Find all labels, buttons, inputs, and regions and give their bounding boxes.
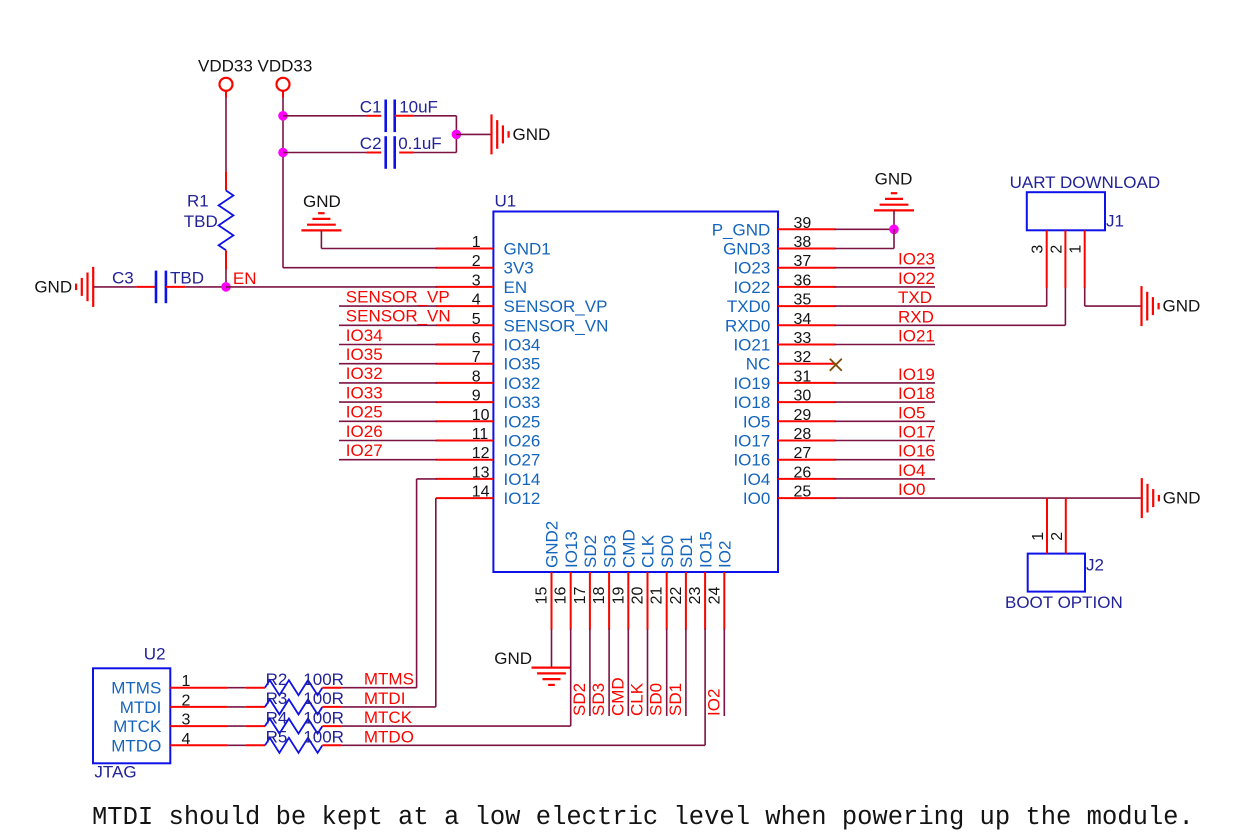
svg-text:100R: 100R [303, 728, 344, 747]
net label SD1 [666, 683, 685, 716]
U1 pin 2 3V3 [436, 253, 534, 278]
svg-text:R2: R2 [266, 670, 288, 689]
svg-text:28: 28 [794, 426, 812, 443]
svg-text:3: 3 [182, 712, 191, 729]
wire net MTMS (R2 to U1 pin 13) [342, 479, 437, 688]
net label IO4 [898, 461, 925, 480]
svg-text:IO12: IO12 [504, 489, 541, 508]
wire EN to U1 pin 3 [226, 286, 437, 288]
svg-text:GND2: GND2 [543, 521, 562, 568]
U1 pin 12 IO27 [436, 445, 541, 470]
net label SENSOR_VN [346, 307, 451, 326]
net label IO34 [346, 326, 383, 345]
svg-text:MTDO: MTDO [364, 727, 414, 746]
wire GND to U1 pin 1 [321, 230, 436, 248]
node EN junction [221, 282, 231, 292]
svg-text:MTDI: MTDI [120, 698, 162, 717]
svg-text:9: 9 [472, 388, 481, 405]
svg-text:IO19: IO19 [898, 365, 935, 384]
net label SENSOR_VP [346, 287, 450, 306]
U1 pin 15 GND2 [534, 521, 562, 630]
svg-text:1: 1 [472, 234, 481, 251]
U2 pin 2 MTDI [120, 692, 228, 717]
wire GND symbol down to junction [893, 210, 895, 229]
net label IO19 [898, 365, 935, 384]
svg-text:36: 36 [794, 272, 812, 289]
svg-text:U1: U1 [495, 192, 517, 211]
J1 pin 3 [1030, 230, 1047, 288]
svg-text:2: 2 [1048, 245, 1065, 254]
svg-text:MTDO: MTDO [111, 736, 161, 755]
svg-text:1: 1 [1068, 245, 1085, 254]
junction C1/C2 to GND [452, 130, 462, 140]
wire net IO4 to U1 pin 26 [835, 478, 935, 480]
capacitor C3 TBD [93, 268, 204, 303]
wire U2 pin 4 to R5 [228, 744, 246, 746]
svg-text:IO34: IO34 [346, 326, 383, 345]
svg-text:1: 1 [182, 673, 191, 690]
wire U2 pin 1 to R2 [228, 687, 246, 689]
svg-text:39: 39 [794, 215, 812, 232]
wire net TXD (U1 pin 35 to J1 pin 3) [835, 287, 1047, 306]
svg-text:100R: 100R [303, 689, 344, 708]
power symbol VDD33 (right) [258, 56, 313, 91]
wire net IO5 to U1 pin 29 [835, 420, 935, 422]
wire net IO35 to U1 pin 7 [339, 363, 437, 365]
net label SD2 [570, 683, 589, 716]
U1 pin 20 CLK [630, 534, 658, 629]
svg-text:IO2: IO2 [704, 689, 723, 716]
svg-text:JTAG: JTAG [94, 763, 136, 782]
net label IO16 [898, 442, 935, 461]
U1 pin 17 SD2 [572, 535, 600, 630]
svg-text:100R: 100R [303, 670, 344, 689]
wire net IO16 to U1 pin 27 [835, 459, 935, 461]
J2 pin 2 [1049, 498, 1066, 553]
net label MTMS [364, 670, 414, 689]
U1 pin 31 IO19 [733, 368, 835, 393]
svg-text:10uF: 10uF [399, 98, 438, 117]
svg-text:IO14: IO14 [504, 470, 541, 489]
svg-text:SD1: SD1 [666, 683, 685, 716]
svg-text:UART DOWNLOAD: UART DOWNLOAD [1010, 173, 1161, 192]
wire J1 pin 1 to ground [1085, 287, 1142, 306]
net label IO18 [898, 384, 935, 403]
net label EN [233, 269, 257, 288]
U1 pin 37 IO23 [733, 253, 835, 278]
svg-text:2: 2 [1049, 532, 1066, 541]
svg-text:MTDI should be kept at a low e: MTDI should be kept at a low electric le… [92, 803, 1194, 832]
U1 pin 25 IO0 [743, 484, 836, 509]
net label IO32 [346, 364, 383, 383]
svg-text:IO18: IO18 [733, 393, 770, 412]
U1 pin 21 SD0 [649, 535, 677, 630]
U1 pin 13 IO14 [436, 464, 541, 489]
wire net CMD to U1 pin 19 [627, 629, 629, 716]
svg-text:IO27: IO27 [504, 451, 541, 470]
svg-text:SD2: SD2 [581, 535, 600, 568]
resistor R5 100R [246, 728, 344, 753]
ground symbol (C3 left) [34, 267, 93, 307]
U1 pin 9 IO33 [436, 388, 541, 413]
wire net IO21 to U1 pin 33 [835, 344, 935, 346]
wire net IO34 to U1 pin 6 [339, 344, 437, 346]
wire net IO22 to U1 pin 36 [835, 286, 935, 288]
svg-text:VDD33: VDD33 [198, 56, 253, 75]
wire net CLK to U1 pin 20 [647, 629, 649, 716]
U1 pin 26 IO4 [743, 464, 836, 489]
U2 pin 3 MTCK [113, 712, 228, 737]
svg-text:IO35: IO35 [346, 345, 383, 364]
net label IO0 [898, 480, 925, 499]
svg-text:27: 27 [794, 445, 812, 462]
resistor R1 [184, 171, 234, 269]
svg-text:IO4: IO4 [898, 461, 925, 480]
svg-text:SD1: SD1 [677, 535, 696, 568]
wire U1 pin 39 to junction [835, 228, 894, 230]
ground symbol (J1) [1142, 286, 1201, 326]
svg-text:4: 4 [182, 731, 191, 748]
wire U1 pin 15 to ground [551, 629, 553, 668]
svg-text:12: 12 [472, 445, 490, 462]
U1 pin 33 IO21 [733, 330, 835, 355]
svg-text:7: 7 [472, 349, 481, 366]
ground symbol (GND2) [494, 649, 571, 685]
svg-text:IO33: IO33 [346, 383, 383, 402]
svg-text:R4: R4 [266, 708, 288, 727]
connector U2 JTAG [93, 644, 170, 781]
U1 pin 3 EN [436, 272, 527, 297]
resistor R2 100R [246, 670, 344, 695]
svg-text:32: 32 [794, 349, 812, 366]
capacitor C2 0.1uF [283, 134, 442, 169]
U1 pin 38 GND3 [723, 234, 836, 259]
svg-text:13: 13 [472, 464, 490, 481]
U1 pin 39 P_GND [712, 215, 836, 240]
wire net SD3 to U1 pin 18 [608, 629, 610, 716]
svg-text:17: 17 [572, 587, 589, 605]
svg-text:CMD: CMD [620, 529, 639, 568]
svg-text:GND: GND [494, 649, 532, 668]
svg-text:20: 20 [630, 587, 647, 605]
wire net MTDI (R3 to U1 pin 14) [342, 498, 436, 707]
U1 pin 28 IO17 [733, 426, 835, 451]
svg-text:3: 3 [472, 272, 481, 289]
wire U1 pin 38 GND3 to junction [835, 229, 894, 248]
wire net SD2 to U1 pin 17 [589, 629, 591, 716]
svg-text:3: 3 [1030, 245, 1047, 254]
svg-text:IO5: IO5 [898, 403, 925, 422]
svg-text:C1: C1 [360, 98, 382, 117]
svg-text:2: 2 [472, 253, 481, 270]
U1 pin 24 IO2 [706, 541, 734, 630]
net label MTDI [364, 689, 406, 708]
U1 pin 16 IO13 [553, 531, 581, 629]
svg-text:SD2: SD2 [570, 683, 589, 716]
resistor R3 100R [246, 689, 344, 714]
svg-text:IO22: IO22 [733, 278, 770, 297]
svg-text:C2: C2 [360, 134, 382, 153]
net label TXD [898, 288, 932, 307]
capacitor C1 10uF [283, 98, 438, 133]
net label IO35 [346, 345, 383, 364]
svg-text:CLK: CLK [628, 682, 647, 716]
wire net IO2 to U1 pin 24 [723, 629, 725, 716]
net label CLK [628, 682, 647, 716]
svg-text:IO33: IO33 [504, 393, 541, 412]
U2 pin 4 MTDO [111, 731, 228, 756]
svg-text:GND: GND [303, 192, 341, 211]
svg-text:24: 24 [706, 587, 723, 605]
svg-text:IO16: IO16 [898, 442, 935, 461]
wire net SENSOR_VN to U1 pin 5 [339, 324, 437, 326]
junction at VDD33/C1 [278, 111, 288, 121]
U1 pin 23 IO15 [687, 531, 715, 629]
wire net IO19 to U1 pin 31 [835, 382, 935, 384]
wire net SENSOR_VP to U1 pin 4 [339, 305, 437, 307]
svg-text:SD0: SD0 [658, 535, 677, 568]
svg-text:2: 2 [182, 692, 191, 709]
J1 pin 1 [1068, 230, 1085, 288]
U1 pin 34 RXD0 [725, 311, 836, 336]
net label IO17 [898, 423, 935, 442]
net label IO21 [898, 327, 935, 346]
svg-text:P_GND: P_GND [712, 220, 771, 239]
svg-text:11: 11 [472, 426, 489, 443]
svg-text:MTCK: MTCK [364, 708, 413, 727]
svg-text:IO18: IO18 [898, 384, 935, 403]
wire C1 to GND corner [414, 116, 457, 135]
svg-text:IO17: IO17 [898, 423, 935, 442]
net label IO26 [346, 422, 383, 441]
U1 pin 22 SD1 [668, 535, 696, 630]
svg-text:IO13: IO13 [562, 531, 581, 568]
svg-text:21: 21 [649, 587, 666, 605]
svg-text:R5: R5 [266, 728, 288, 747]
wire net IO18 to U1 pin 30 [835, 401, 935, 403]
svg-text:IO23: IO23 [733, 259, 770, 278]
svg-text:SENSOR_VP: SENSOR_VP [346, 287, 450, 306]
U1 pin 19 CMD [610, 529, 638, 629]
svg-text:IO16: IO16 [733, 451, 770, 470]
svg-text:IO19: IO19 [733, 374, 770, 393]
svg-text:IO32: IO32 [346, 364, 383, 383]
svg-text:MTMS: MTMS [364, 670, 414, 689]
svg-text:IO35: IO35 [504, 355, 541, 374]
svg-text:CLK: CLK [639, 534, 658, 568]
svg-text:GND: GND [34, 277, 72, 296]
wire net IO32 to U1 pin 8 [339, 382, 437, 384]
svg-text:GND1: GND1 [504, 240, 551, 259]
svg-text:22: 22 [668, 587, 685, 605]
svg-text:4: 4 [472, 292, 481, 309]
wire U2 pin 2 to R3 [228, 706, 246, 708]
svg-text:BOOT OPTION: BOOT OPTION [1005, 593, 1123, 612]
wire VDD33 down to 3V3 pin 2 [283, 91, 437, 268]
wire net SD0 to U1 pin 21 [666, 629, 668, 716]
svg-text:GND3: GND3 [723, 240, 770, 259]
U1 pin 7 IO35 [436, 349, 541, 374]
svg-text:IO15: IO15 [696, 531, 715, 568]
connector J2 BOOT OPTION [1005, 554, 1123, 612]
svg-text:30: 30 [794, 388, 812, 405]
svg-text:R1: R1 [187, 191, 209, 210]
connector J1 UART DOWNLOAD [1010, 173, 1161, 231]
svg-text:IO27: IO27 [346, 441, 383, 460]
wire net IO17 to U1 pin 28 [835, 440, 935, 442]
svg-text:IO32: IO32 [504, 374, 541, 393]
svg-text:SENSOR_VN: SENSOR_VN [346, 307, 451, 326]
svg-text:RXD0: RXD0 [725, 316, 770, 335]
svg-text:5: 5 [472, 311, 481, 328]
wire net IO25 to U1 pin 10 [339, 420, 437, 422]
wire U2 pin 3 to R4 [228, 725, 246, 727]
svg-text:6: 6 [472, 330, 481, 347]
svg-text:SD3: SD3 [589, 683, 608, 716]
wire net IO23 to U1 pin 37 [835, 267, 935, 269]
svg-text:37: 37 [794, 253, 812, 270]
svg-text:33: 33 [794, 330, 812, 347]
svg-text:GND: GND [875, 170, 913, 189]
svg-text:19: 19 [610, 587, 627, 605]
svg-text:15: 15 [534, 587, 551, 605]
wire net IO26 to U1 pin 11 [339, 440, 437, 442]
svg-text:R3: R3 [266, 689, 288, 708]
net label IO5 [898, 403, 925, 422]
resistor R4 100R [246, 708, 344, 733]
svg-text:RXD: RXD [898, 307, 934, 326]
U1 pin 11 IO26 [436, 426, 541, 451]
svg-text:3V3: 3V3 [504, 259, 534, 278]
svg-text:MTMS: MTMS [111, 679, 161, 698]
net label CMD [608, 677, 627, 716]
U1 pin 8 IO32 [436, 368, 541, 393]
svg-text:CMD: CMD [608, 677, 627, 716]
no-connect X on U1 pin 32 [830, 359, 842, 371]
U1 pin 29 IO5 [743, 407, 836, 432]
IC U1 ESP32 module body [493, 192, 778, 573]
U1 pin 18 SD3 [591, 535, 619, 630]
svg-text:IO26: IO26 [504, 432, 541, 451]
svg-text:23: 23 [687, 587, 704, 605]
U1 pin 1 GND1 [436, 234, 551, 259]
svg-text:IO25: IO25 [346, 403, 383, 422]
svg-text:IO22: IO22 [898, 269, 935, 288]
svg-text:IO4: IO4 [743, 470, 770, 489]
svg-text:TXD0: TXD0 [727, 297, 770, 316]
svg-text:MTDI: MTDI [364, 689, 406, 708]
svg-text:J1: J1 [1106, 211, 1124, 230]
U1 pin 36 IO22 [733, 272, 835, 297]
svg-text:38: 38 [794, 234, 812, 251]
net label SD3 [589, 683, 608, 716]
svg-text:26: 26 [794, 464, 812, 481]
svg-text:IO2: IO2 [716, 541, 735, 568]
wire net MTDO (R5 to U1 pin 23) [342, 629, 705, 746]
net label MTDO [364, 727, 414, 746]
svg-text:1: 1 [1030, 532, 1047, 541]
J1 pin 2 [1048, 230, 1065, 288]
wire net IO27 to U1 pin 12 [339, 459, 437, 461]
U1 pin 4 SENSOR_VP [436, 292, 608, 317]
net label IO27 [346, 441, 383, 460]
J2 pin 1 [1030, 498, 1047, 553]
ground symbol (IO0) [1142, 478, 1201, 518]
U1 pin 14 IO12 [436, 484, 541, 509]
svg-text:MTCK: MTCK [113, 717, 162, 736]
svg-text:GND: GND [513, 125, 551, 144]
note text [92, 803, 1194, 832]
wire net RXD (U1 pin 34 to J1 pin 2) [835, 287, 1066, 325]
wire C2 to GND corner [414, 134, 457, 152]
wire junction to GND symbol [456, 133, 491, 135]
svg-text:IO21: IO21 [898, 327, 935, 346]
net label MTCK [364, 708, 413, 727]
svg-text:IO0: IO0 [743, 489, 770, 508]
svg-text:10: 10 [472, 407, 490, 424]
svg-text:NC: NC [746, 355, 771, 374]
svg-text:31: 31 [794, 368, 812, 385]
svg-text:TXD: TXD [898, 288, 932, 307]
svg-text:J2: J2 [1086, 555, 1104, 574]
svg-text:18: 18 [591, 587, 608, 605]
U1 pin 35 TXD0 [727, 292, 836, 317]
svg-text:8: 8 [472, 368, 481, 385]
wire net SD1 to U1 pin 22 [685, 629, 687, 716]
svg-text:14: 14 [472, 484, 490, 501]
svg-text:25: 25 [794, 484, 812, 501]
net label RXD [898, 307, 934, 326]
svg-text:SD0: SD0 [647, 683, 666, 716]
net label IO25 [346, 403, 383, 422]
svg-text:16: 16 [553, 587, 570, 605]
U1 pin 32 NC [746, 349, 836, 374]
svg-text:IO17: IO17 [733, 432, 770, 451]
wire net IO0 (U1 pin 25 to J2/GND) [835, 497, 1142, 499]
U1 pin 6 IO34 [436, 330, 541, 355]
svg-text:IO23: IO23 [898, 250, 935, 269]
junction P_GND [889, 225, 899, 235]
svg-text:29: 29 [794, 407, 812, 424]
wire net MTCK (R4 to U1 pin 16) [342, 629, 571, 727]
power symbol VDD33 (left) [198, 56, 253, 91]
svg-text:TBD: TBD [184, 212, 218, 231]
svg-text:IO25: IO25 [504, 412, 541, 431]
svg-text:EN: EN [233, 269, 257, 288]
net label IO2 [704, 689, 723, 716]
net label IO23 [898, 250, 935, 269]
svg-text:IO21: IO21 [733, 336, 770, 355]
svg-text:34: 34 [794, 311, 812, 328]
wire VDD33 to R1 [225, 91, 227, 172]
svg-text:SENSOR_VP: SENSOR_VP [504, 297, 608, 316]
wire C3 to EN junction [186, 286, 226, 288]
net label IO33 [346, 383, 383, 402]
wire net IO33 to U1 pin 9 [339, 401, 437, 403]
svg-text:SENSOR_VN: SENSOR_VN [504, 316, 609, 335]
U1 pin 5 SENSOR_VN [436, 311, 609, 336]
svg-text:35: 35 [794, 292, 812, 309]
svg-text:GND: GND [1163, 297, 1201, 316]
svg-text:0.1uF: 0.1uF [398, 134, 441, 153]
svg-text:TBD: TBD [170, 268, 204, 287]
U2 pin 1 MTMS [111, 673, 228, 698]
U1 pin 30 IO18 [733, 388, 835, 413]
svg-text:SD3: SD3 [600, 535, 619, 568]
U1 pin 10 IO25 [436, 407, 541, 432]
svg-text:EN: EN [504, 278, 528, 297]
wire R1 to EN node [225, 270, 227, 287]
